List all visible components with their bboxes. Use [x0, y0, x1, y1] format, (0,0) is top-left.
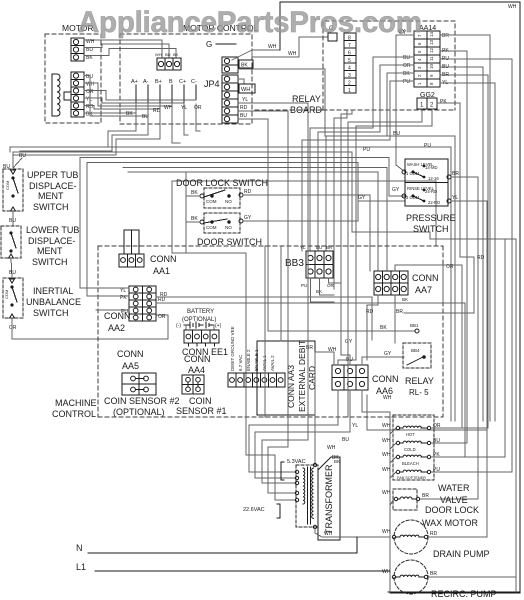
svg-text:AA1: AA1: [153, 266, 170, 276]
svg-text:OR: OR: [194, 105, 202, 111]
solenoid COLD: [396, 441, 430, 452]
svg-text:BR: BR: [326, 245, 333, 250]
svg-text:6.7 VAC: 6.7 VAC: [238, 354, 243, 371]
svg-text:OR: OR: [158, 314, 166, 320]
svg-text:WH: WH: [383, 395, 392, 401]
svg-text:MENT: MENT: [37, 246, 63, 256]
svg-text:YL: YL: [452, 195, 458, 201]
svg-text:SWITCH: SWITCH: [33, 308, 69, 318]
transformer secondary winding: [312, 468, 314, 518]
relay board connector 8..1: [344, 33, 356, 94]
svg-text:GY: GY: [345, 339, 353, 345]
svg-text:WH: WH: [382, 529, 391, 535]
svg-text:COM: COM: [4, 290, 9, 299]
svg-text:PU: PU: [403, 79, 410, 85]
svg-text:GY: GY: [392, 187, 400, 193]
svg-text:COIN SENSOR #2: COIN SENSOR #2: [104, 396, 180, 406]
svg-text:WH: WH: [164, 105, 173, 111]
svg-text:5: 5: [348, 58, 351, 64]
svg-text:BU: BU: [165, 52, 171, 57]
svg-text:WH: WH: [268, 44, 277, 50]
svg-text:PU: PU: [433, 467, 440, 473]
svg-text:RD: RD: [240, 105, 248, 111]
svg-text:12-16: 12-16: [428, 176, 439, 181]
wire BU from JP4: [238, 119, 268, 124]
svg-text:14-MD: 14-MD: [425, 165, 438, 170]
svg-text:WH: WH: [382, 423, 391, 429]
svg-text:RD: RD: [244, 189, 252, 195]
svg-text:BK: BK: [380, 325, 387, 331]
svg-text:SENSOR #1: SENSOR #1: [176, 406, 227, 416]
connector AA6: [332, 365, 368, 390]
lower tub displacement switch: [1, 226, 21, 258]
wire RD AA2 right long: [156, 297, 372, 340]
svg-text:ENABLE 2: ENABLE 2: [246, 349, 251, 371]
svg-text:RL- 5: RL- 5: [409, 388, 429, 397]
motor winding coil: [57, 74, 60, 116]
connector AA2: [129, 286, 156, 321]
svg-text:N: N: [76, 543, 83, 553]
svg-text:PU: PU: [424, 143, 431, 149]
svg-text:PRESSURE: PRESSURE: [406, 213, 456, 223]
svg-text:UNBALANCE: UNBALANCE: [26, 297, 81, 307]
motor connector P2 (6-pin): [71, 72, 84, 117]
wire trunk filler f2: [341, 110, 352, 365]
label BK boxed: [239, 60, 253, 68]
svg-text:BU: BU: [403, 55, 410, 61]
wire BK from JP3: [238, 69, 455, 421]
wire OR AA14 to trunk: [318, 65, 414, 251]
svg-text:13: 13: [429, 39, 434, 45]
transformer terminals: [295, 470, 298, 473]
wire B nest: [172, 104, 180, 143]
svg-text:RD: RD: [430, 531, 438, 537]
svg-text:BK: BK: [191, 190, 198, 196]
svg-text:CONN: CONN: [150, 254, 177, 264]
svg-text:OR: OR: [327, 283, 335, 288]
wire drain pump RD: [428, 536, 487, 538]
label WH boxed: [238, 79, 244, 84]
svg-text:BB4: BB4: [411, 348, 420, 353]
svg-text:CONN: CONN: [372, 374, 399, 384]
wire bus line 1: [10, 147, 451, 421]
svg-text:RELAY: RELAY: [405, 376, 434, 386]
wire YL from JP4: [238, 103, 308, 124]
svg-text:WH: WH: [508, 4, 517, 10]
svg-text:22.6VAC: 22.6VAC: [243, 507, 265, 513]
wire nest n1 YL: [249, 390, 338, 472]
wire WH transformer bottom: [315, 529, 390, 537]
svg-text:UPPER TUB: UPPER TUB: [27, 170, 78, 180]
svg-text:YL: YL: [86, 97, 92, 103]
svg-text:ENABLE 1: ENABLE 1: [254, 349, 259, 371]
drain pump: [392, 520, 428, 554]
svg-text:AA4: AA4: [188, 365, 205, 375]
svg-text:WH: WH: [382, 467, 391, 473]
wire BU between switches: [11, 258, 12, 278]
wire WH to AA6: [315, 352, 334, 465]
svg-text:WH: WH: [288, 51, 297, 57]
wire AA7 loop box: [395, 265, 455, 303]
wire bus line 4: [87, 163, 358, 297]
svg-text:B: B: [169, 79, 173, 85]
relay RL-5: [403, 343, 431, 368]
solenoid HOT: [396, 426, 430, 437]
svg-text:BK: BK: [241, 63, 248, 69]
svg-text:(OPTIONAL): (OPTIONAL): [182, 317, 216, 323]
svg-text:CONN: CONN: [412, 273, 439, 283]
svg-text:MENT: MENT: [38, 191, 64, 201]
svg-text:DISPLACE-: DISPLACE-: [28, 236, 76, 246]
svg-text:BR: BR: [396, 309, 403, 315]
svg-text:BR: BR: [306, 345, 313, 351]
svg-text:AA2: AA2: [108, 323, 125, 333]
wire GY AA14 to pressure switch: [396, 35, 414, 171]
wire C- nest: [196, 104, 200, 131]
svg-text:WH: WH: [324, 531, 333, 537]
svg-text:COM: COM: [206, 225, 217, 230]
svg-text:OR: OR: [403, 63, 411, 69]
wire bus line 5: [123, 168, 387, 272]
svg-text:YL: YL: [120, 288, 126, 294]
external debit card box: [257, 340, 317, 415]
svg-text:BU: BU: [316, 245, 322, 250]
debit card pin strip: [228, 373, 285, 387]
recirc pump: [392, 560, 428, 594]
svg-text:BK: BK: [126, 111, 133, 117]
svg-text:COM: COM: [206, 199, 217, 204]
wire OR valve: [431, 265, 462, 428]
svg-text:WH: WH: [382, 569, 391, 575]
wire BU between switches: [12, 211, 14, 226]
wire YL branch to AA6: [367, 395, 487, 430]
svg-text:PK: PK: [440, 99, 447, 105]
svg-text:NO: NO: [225, 199, 232, 204]
svg-text:(OPTIONAL): (OPTIONAL): [113, 407, 165, 417]
svg-text:YL: YL: [242, 97, 248, 103]
connector EE1: [184, 330, 219, 346]
svg-text:YL: YL: [352, 423, 358, 429]
svg-text:A-: A-: [143, 79, 149, 85]
svg-text:14: 14: [429, 31, 434, 37]
svg-text:INERTIAL: INERTIAL: [33, 286, 73, 296]
svg-text:3: 3: [348, 73, 351, 79]
wire BB3 OR down: [329, 278, 341, 283]
svg-text:BK: BK: [191, 216, 198, 222]
transformer core: [307, 467, 309, 524]
inertial unbalance switch: [3, 278, 23, 318]
svg-text:CONN: CONN: [117, 349, 144, 359]
wire BB3 BK down: [320, 278, 335, 295]
svg-text:(+): (+): [215, 323, 222, 329]
svg-text:BK: BK: [173, 52, 179, 57]
svg-text:C-: C-: [191, 79, 197, 85]
svg-text:BLEACH: BLEACH: [402, 461, 419, 466]
wire BU AA14 right: [440, 67, 483, 421]
door switch: [200, 213, 243, 233]
svg-text:SWITCH: SWITCH: [32, 257, 68, 267]
svg-text:AVAIL 2: AVAIL 2: [270, 355, 275, 371]
wire BU valve: [431, 250, 467, 443]
wire trunk filler f8: [280, 246, 282, 341]
svg-text:RD: RD: [160, 292, 168, 298]
svg-text:DOOR LOCK SWITCH: DOOR LOCK SWITCH: [176, 178, 268, 188]
svg-text:DEBIT GROUND VEE: DEBIT GROUND VEE: [230, 326, 235, 371]
wire B+ nest: [13, 104, 160, 155]
wire trunk filler f7: [264, 246, 266, 417]
wire A+ down-left nest: [28, 104, 136, 147]
svg-text:11: 11: [429, 56, 434, 61]
svg-text:RD: RD: [366, 309, 374, 315]
wire YL motor to C+: [84, 98, 184, 103]
wire WH diagonals to valve: [390, 428, 396, 434]
wire WH bus to loads: [362, 390, 390, 593]
wire PK AA2: [87, 295, 129, 297]
transformer primary winding: [303, 468, 305, 504]
wire door left vertical: [172, 181, 186, 253]
wire BR pressure to right bus: [420, 177, 478, 499]
svg-text:BB1: BB1: [410, 323, 419, 328]
svg-text:RELAY: RELAY: [292, 94, 321, 104]
transformer bottom terminal: [313, 525, 316, 528]
connector JP3 (2-pin): [222, 57, 238, 73]
connector AA7: [374, 271, 408, 295]
svg-text:DISPLACE-: DISPLACE-: [29, 181, 77, 191]
wire AA7 bottom BR: [394, 295, 396, 343]
svg-text:22-RD: 22-RD: [428, 200, 440, 205]
wire BK stub door lock: [186, 195, 200, 197]
relay board dashed box: [323, 21, 455, 110]
svg-text:G: G: [206, 40, 212, 49]
wire PK valve: [431, 239, 505, 457]
svg-text:(-): (-): [176, 323, 181, 329]
terminal BB1: [415, 329, 419, 333]
svg-text:COIN: COIN: [189, 396, 212, 406]
wire trunk filler f3: [348, 109, 422, 417]
svg-text:FAB SOFTENER: FAB SOFTENER: [397, 476, 426, 480]
svg-text:COLD: COLD: [404, 447, 416, 452]
relay board dashed bottom edge: [255, 109, 323, 111]
svg-text:WH: WH: [155, 52, 162, 57]
upper tub displacement switch: [3, 169, 23, 211]
svg-text:DOOR LOCK: DOOR LOCK: [425, 505, 479, 515]
svg-text:NO: NO: [225, 225, 232, 230]
wire trunk filler f4: [338, 109, 432, 365]
svg-text:WH: WH: [241, 87, 250, 93]
svg-text:DRAIN PUMP: DRAIN PUMP: [433, 549, 490, 559]
svg-text:GY: GY: [244, 215, 252, 221]
svg-text:A+: A+: [131, 79, 138, 85]
svg-text:RD: RD: [153, 108, 161, 114]
svg-text:SWITCH: SWITCH: [413, 224, 449, 234]
svg-text:PU: PU: [301, 283, 307, 288]
svg-text:5.3VAC: 5.3VAC: [287, 459, 306, 465]
wire door box top: [172, 181, 436, 246]
svg-text:PU: PU: [363, 147, 370, 153]
top border WH wire: [280, 2, 520, 592]
svg-text:BU: BU: [342, 437, 349, 443]
pressure switch: [402, 159, 451, 206]
wire PU AA14 right: [431, 59, 512, 472]
svg-text:BU: BU: [393, 131, 400, 137]
svg-text:RD: RD: [477, 255, 485, 261]
motor enclosure dashed box: [45, 34, 101, 123]
svg-text:GY: GY: [358, 195, 366, 201]
svg-text:C+: C+: [179, 79, 186, 85]
svg-text:1: 1: [348, 88, 351, 94]
water valve dashed box: [393, 415, 434, 480]
wire BU motor to A-: [84, 76, 148, 116]
svg-text:6: 6: [348, 51, 351, 57]
svg-text:BU: BU: [9, 218, 16, 224]
svg-text:10: 10: [429, 63, 434, 69]
svg-text:AA5: AA5: [122, 361, 139, 371]
svg-text:VALVE: VALVE: [440, 495, 468, 505]
transformer dashed box: [296, 465, 318, 527]
wire YL AA14 right: [440, 83, 495, 421]
wire BU AA14 to trunk: [310, 57, 414, 251]
control input connector (WH BU BK): [155, 52, 181, 70]
machine control dashed box: [98, 245, 443, 247]
wire WH branch to G of relay board: [252, 37, 328, 57]
wire RD door lock to AA7: [243, 195, 370, 271]
wire BR recirc pump: [428, 576, 516, 578]
motor control dashed box: [120, 34, 252, 124]
svg-text:24-RD: 24-RD: [425, 189, 437, 194]
wire PK AA14 right: [440, 51, 467, 250]
wire door switch feed: [186, 172, 246, 417]
wire trunk filler f1: [334, 110, 347, 289]
svg-text:7: 7: [348, 43, 351, 49]
svg-text:BATTERY: BATTERY: [187, 309, 214, 315]
svg-text:BR: BR: [452, 171, 459, 177]
wire bus line 3: [80, 158, 404, 289]
connector AA1 plug: [124, 230, 139, 254]
motor connector P1 (3-pin): [71, 38, 84, 61]
svg-text:BR: BR: [442, 33, 449, 39]
svg-text:BK: BK: [403, 71, 410, 77]
svg-text:WAX MOTOR: WAX MOTOR: [422, 518, 479, 528]
wire YL pressure to AA6: [451, 201, 487, 537]
svg-text:B+: B+: [155, 79, 162, 85]
door lock wax motor: [393, 489, 420, 510]
solenoid BLEACH: [396, 455, 430, 466]
svg-text:WH: WH: [382, 490, 391, 496]
wire GY to relay RL-5: [362, 357, 404, 365]
wire PK GG2: [404, 103, 474, 313]
svg-text:WH: WH: [382, 452, 391, 458]
wire BK stub door switch: [186, 221, 200, 223]
wire AA7 bottom RD: [367, 295, 378, 360]
svg-text:GY: GY: [384, 351, 392, 357]
wire BK motor to A+: [84, 112, 136, 114]
svg-text:WH: WH: [327, 445, 336, 451]
wire PU AA2: [96, 309, 129, 311]
transformer top terminal: [313, 463, 316, 466]
wire WH motor to B: [84, 83, 172, 106]
wire RD from JP4: [238, 111, 288, 124]
wire C+ nest: [184, 104, 188, 135]
wire GY door switch to AA7: [243, 201, 404, 221]
svg-text:4: 4: [348, 66, 351, 72]
svg-text:BU: BU: [240, 113, 247, 119]
svg-text:L1: L1: [76, 562, 86, 572]
svg-text:HOT: HOT: [406, 432, 415, 437]
svg-text:RECIRC. PUMP: RECIRC. PUMP: [431, 589, 497, 599]
wire BR2 AA14 right: [440, 75, 488, 428]
svg-text:AppliancePartsPros.com: AppliancePartsPros.com: [78, 6, 422, 39]
wire OR return to AA2: [12, 315, 168, 339]
svg-text:12: 12: [429, 47, 434, 53]
wire RD motor to B+: [84, 106, 160, 109]
svg-text:CONN: CONN: [184, 354, 211, 364]
wire nest n3: [262, 124, 308, 483]
svg-text:TRANSFORMER: TRANSFORMER: [324, 464, 334, 534]
svg-text:JP4: JP4: [204, 79, 220, 89]
wire nest n5: [246, 417, 296, 500]
solenoid FAB SOFTENER: [396, 470, 430, 480]
svg-text:YL: YL: [300, 245, 306, 250]
svg-text:BU: BU: [9, 270, 16, 276]
wire BK to BB1: [268, 124, 415, 331]
svg-text:WATER: WATER: [438, 483, 470, 493]
wire bus line 6: [128, 172, 378, 271]
svg-text:OR: OR: [9, 325, 17, 331]
svg-text:LOWER TUB: LOWER TUB: [26, 225, 79, 235]
svg-text:SWITCH: SWITCH: [33, 202, 69, 212]
wire BU motor to control: [84, 44, 169, 58]
wire bus line 2: [13, 152, 516, 592]
svg-text:BR: BR: [430, 571, 437, 577]
svg-text:BR: BR: [422, 493, 429, 499]
wire WH to relay board: [232, 50, 280, 60]
wire BK motor to control: [84, 49, 176, 59]
wire nest n4: [268, 124, 296, 493]
transformer label box: [318, 457, 340, 540]
svg-text:COM: COM: [5, 181, 10, 190]
motor winding tap bracket: [64, 92, 71, 100]
svg-text:BK: BK: [334, 459, 340, 464]
svg-text:CONTROL: CONTROL: [52, 409, 96, 419]
svg-text:MACHINE: MACHINE: [55, 398, 97, 408]
svg-text:AA7: AA7: [415, 285, 432, 295]
wire OR motor to C-: [84, 91, 196, 100]
svg-text:WH: WH: [382, 438, 391, 444]
wire bus BU diagonal: [13, 158, 22, 168]
wire nest n2 BU: [255, 390, 350, 478]
wire A- nest: [20, 104, 148, 151]
wire BR AA14 to BB3: [440, 35, 490, 421]
wire RD2 AA2 right long: [156, 303, 465, 457]
svg-text:BU: BU: [19, 153, 26, 159]
svg-text:2: 2: [348, 81, 351, 87]
wire WH motor to control: [84, 40, 162, 58]
svg-text:BK: BK: [402, 297, 408, 302]
connector AA1: [119, 254, 144, 267]
wire PU AA14 to trunk: [302, 81, 414, 251]
wire YL AA2: [80, 287, 129, 289]
wire BB3 PU down: [311, 278, 335, 302]
wire BK AA14 to trunk: [326, 73, 414, 251]
